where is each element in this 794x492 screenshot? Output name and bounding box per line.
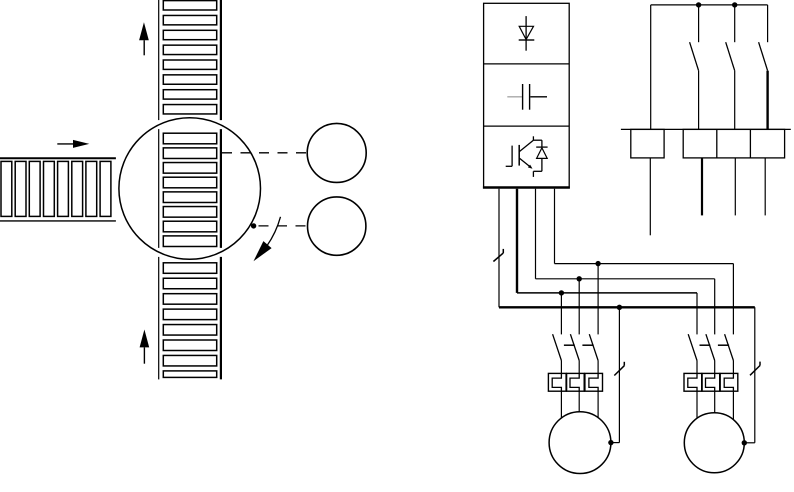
node dot on turntable rim <box>251 223 256 228</box>
vertical conveyor slats (bottom section) <box>163 263 216 378</box>
left overload relay F1 squares <box>548 373 602 391</box>
DC-link capacitor symbol <box>507 84 547 110</box>
left overload heater detours <box>552 373 598 391</box>
frequency converter U1 outline <box>484 3 570 187</box>
wire W2 (thick converter output) <box>516 189 518 293</box>
horizontal infeed conveyor bottom rail <box>0 220 116 222</box>
dashed link lower <box>259 225 308 227</box>
right auxiliary wire from bus <box>744 307 755 443</box>
junction dot on H2 <box>559 290 564 295</box>
left motor leads <box>561 391 598 418</box>
disconnect switch pole 1 <box>690 5 699 129</box>
right overload heater detours <box>688 373 734 391</box>
vertical conveyor slats (top section) <box>163 1 216 114</box>
terminal box 4 outgoing wire <box>764 158 766 216</box>
right overload relay F2 squares <box>684 373 738 391</box>
disconnect switch pole 3 (thick lower wire) <box>759 5 768 129</box>
terminal busbar <box>621 128 791 130</box>
terminal box 2 outgoing wire (thick) <box>701 158 703 216</box>
left contactor K1 blades <box>553 334 599 360</box>
horizontal conveyor slats <box>1 161 111 216</box>
right motor terminal dot <box>742 440 747 445</box>
vertical conveyor right rail <box>220 0 222 379</box>
left supply drop wire <box>650 5 652 129</box>
terminal box 3 outgoing wire <box>734 158 736 216</box>
converter section divider 1 <box>484 63 570 65</box>
left motor terminal dot <box>608 440 613 445</box>
disconnect slash on left aux wire <box>614 362 624 376</box>
left motor M1 <box>549 412 611 474</box>
dashed link upper <box>222 152 307 154</box>
junction dot on supply line 1 <box>696 2 701 7</box>
junction dot on thick bus <box>617 305 622 310</box>
converter section divider 2 <box>484 125 570 127</box>
horizontal feeder H3 <box>536 278 715 280</box>
left contactor linkage bars <box>564 344 594 346</box>
right contactor linkage bars <box>700 344 730 346</box>
right contactor K2 blades <box>688 334 733 360</box>
drive roller circle lower <box>308 197 366 255</box>
right contactor K2 pole drops <box>697 264 733 335</box>
left contactor lower stubs <box>561 361 598 374</box>
rotation arrow (curved) <box>254 217 281 261</box>
disconnect slash on right aux wire <box>750 362 760 376</box>
top supply line <box>651 4 768 6</box>
converter thick bottom edge <box>483 186 570 188</box>
upward arrow (bottom of vertical conveyor) <box>140 330 150 364</box>
vertical conveyor slats (inside turntable circle) <box>163 133 216 246</box>
drive roller circle upper <box>307 123 366 182</box>
infeed direction arrow (right) <box>57 140 89 148</box>
vertical conveyor left rail <box>158 0 160 379</box>
terminal box 1 outgoing wire <box>649 158 651 235</box>
junction dot on supply line 2 <box>732 2 737 7</box>
turntable circle <box>119 118 261 260</box>
IGBT emitter arrowhead <box>528 165 533 169</box>
terminal boxes 2-4 <box>683 129 784 158</box>
horizontal infeed conveyor top rail <box>0 157 116 159</box>
rectifier diode symbol <box>519 16 535 51</box>
left auxiliary wire from bus <box>611 307 620 442</box>
wire W4 <box>554 189 556 264</box>
left contactor K1 pole drops <box>561 264 598 335</box>
right motor M2 <box>684 413 744 473</box>
junction dot on H3 <box>577 276 582 281</box>
upward arrow (top of vertical conveyor) <box>139 22 149 55</box>
terminal box 1 <box>631 129 664 158</box>
horizontal feeder H2 <box>517 292 697 294</box>
right motor leads <box>697 391 733 420</box>
horizontal feeder H4 <box>555 263 734 265</box>
IGBT inverter symbol <box>506 136 548 177</box>
wire W3 <box>535 189 537 279</box>
wire W1 (converter output 1, down to thick bus) <box>498 189 500 308</box>
disconnect switch pole 2 <box>726 5 735 129</box>
right contactor lower stubs <box>697 361 733 374</box>
thick bottom bus <box>499 306 755 308</box>
disconnect slash on W1 <box>493 249 503 262</box>
junction dot on H4 <box>595 261 600 266</box>
